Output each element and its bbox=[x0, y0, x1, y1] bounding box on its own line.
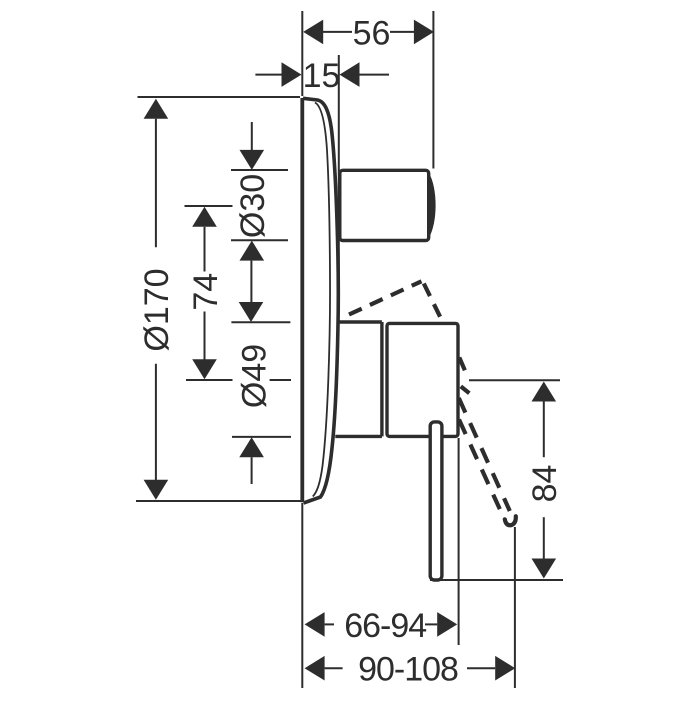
svg-text:66-94: 66-94 bbox=[344, 607, 426, 645]
svg-text:15: 15 bbox=[303, 57, 341, 95]
wire hub-right extension bbox=[458, 438, 460, 645]
valve stem end bulge bbox=[429, 173, 436, 239]
svg-text:90-108: 90-108 bbox=[358, 651, 458, 689]
wire dome-peak extension bbox=[338, 55, 340, 290]
svg-text:84: 84 bbox=[526, 465, 564, 503]
svg-text:Ø30: Ø30 bbox=[234, 174, 272, 238]
wire hub-axis tick left bbox=[186, 379, 233, 381]
handle hub outline bbox=[387, 323, 458, 436]
valve stem outline bbox=[340, 170, 429, 240]
wire hub-top tick bbox=[231, 321, 290, 323]
escutcheon plate fill bbox=[303, 98, 338, 503]
wire stem-top tick bbox=[231, 169, 288, 171]
wire plate-bottom extension bbox=[136, 500, 304, 502]
wire wall extension bottom bbox=[301, 503, 303, 688]
handle hub fill bbox=[387, 323, 458, 436]
wire wall extension top bbox=[301, 11, 303, 96]
valve stem fill bbox=[340, 170, 429, 240]
wire dashed-tip extension bbox=[514, 527, 516, 688]
svg-text:74: 74 bbox=[187, 273, 225, 311]
wire lever-tip extension bbox=[430, 579, 563, 581]
svg-text:Ø49: Ø49 bbox=[235, 344, 273, 408]
wire plate-top extension bbox=[138, 96, 301, 98]
svg-text:Ø170: Ø170 bbox=[138, 268, 176, 351]
wire stem-bottom tick bbox=[231, 239, 288, 241]
cone adapter outline bbox=[335, 322, 382, 436]
cone adapter fill bbox=[334, 322, 382, 436]
wire stem-end extension bbox=[432, 11, 434, 169]
escutcheon plate outline bbox=[302, 98, 338, 503]
wire lever-up extension bbox=[469, 379, 560, 381]
svg-text:56: 56 bbox=[353, 14, 391, 52]
wire hub-axis tick right bbox=[270, 379, 291, 381]
wire stem-axis tick bbox=[185, 205, 233, 207]
wire hub-bottom tick bbox=[232, 436, 291, 438]
lever rod (down position) bbox=[430, 422, 442, 580]
dashed lever end cap bbox=[505, 516, 516, 525]
